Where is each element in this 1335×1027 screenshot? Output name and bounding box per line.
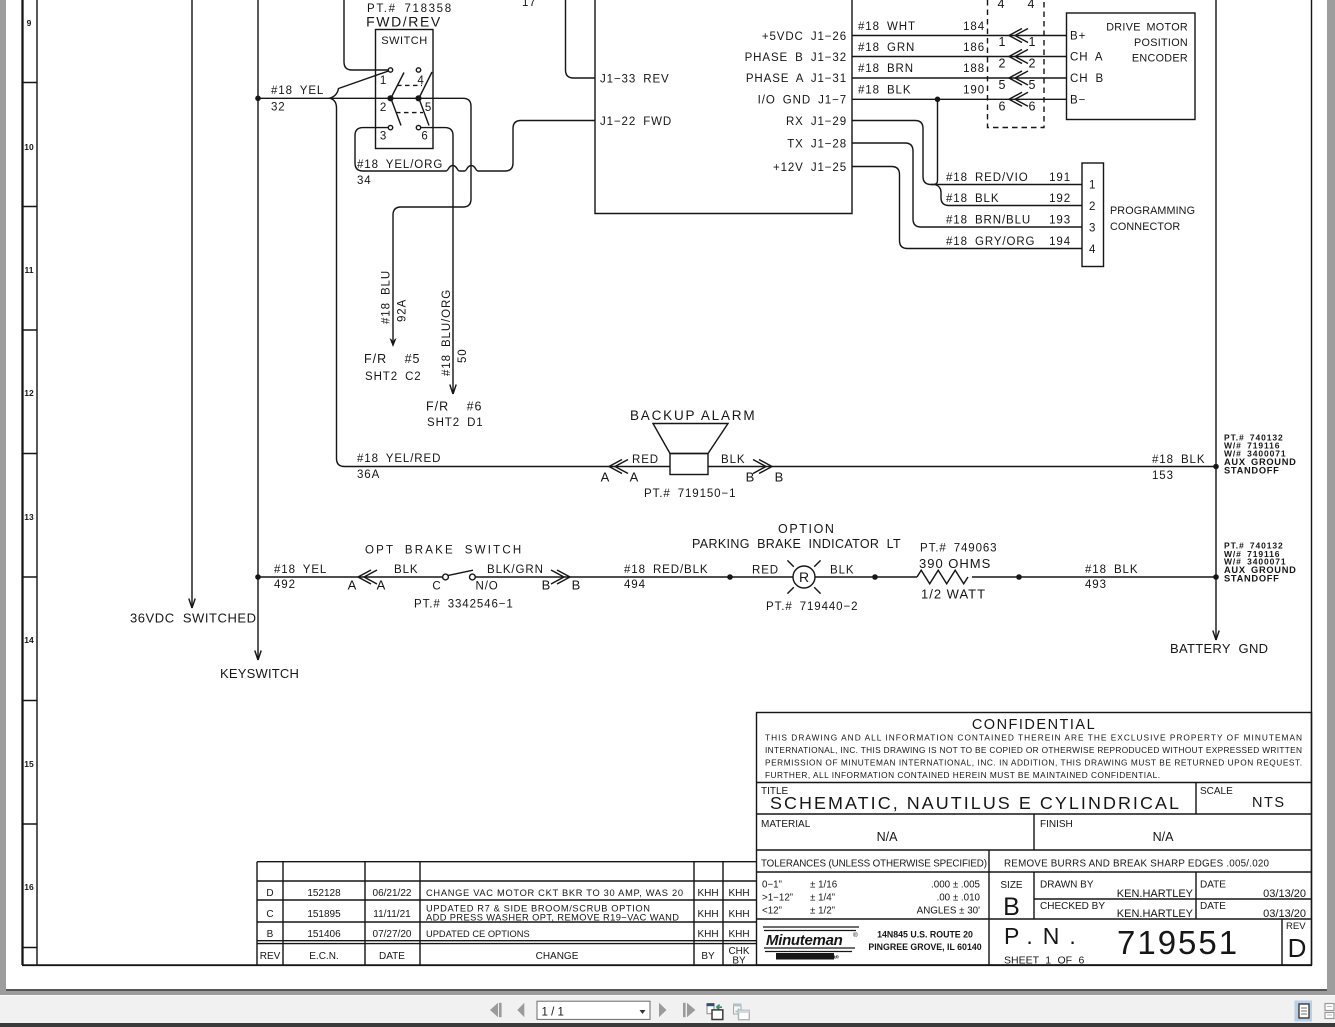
svg-text:#18 RED/BLK: #18 RED/BLK (624, 564, 709, 576)
svg-text:Excellence Meets Clean: Excellence Meets Clean (779, 955, 840, 961)
svg-text:14: 14 (24, 635, 34, 645)
page number box (537, 1001, 650, 1019)
svg-text:6: 6 (421, 131, 428, 143)
svg-text:PINGREE GROVE, IL 60140: PINGREE GROVE, IL 60140 (868, 942, 981, 952)
svg-text:4: 4 (1028, 0, 1035, 11)
encoder wire CH A (852, 56, 1067, 58)
svg-text:494: 494 (624, 579, 646, 591)
wire riser to J1-33 REV (566, 0, 596, 78)
svg-text:REV: REV (260, 951, 281, 962)
svg-text:D: D (266, 888, 273, 899)
svg-text:BLK: BLK (830, 565, 854, 577)
svg-text:PARKING BRAKE INDICATOR LT: PARKING BRAKE INDICATOR LT (692, 537, 901, 551)
next page button (659, 1003, 667, 1017)
svg-text:SHT2 C2: SHT2 C2 (365, 371, 422, 383)
controller box U1 (595, 0, 852, 214)
svg-text:TX J1−28: TX J1−28 (787, 139, 847, 151)
svg-text:07/27/20: 07/27/20 (373, 929, 412, 940)
drive motor position encoder box (1067, 13, 1196, 120)
svg-text:#18 WHT: #18 WHT (858, 21, 916, 33)
svg-text:#18 BLU/ORG: #18 BLU/ORG (441, 289, 453, 376)
junction node: I/O GND tap (935, 97, 941, 103)
connector J2 dashed encoder connector (988, 0, 1045, 128)
svg-text:A: A (601, 470, 610, 485)
svg-text:N/A: N/A (877, 830, 899, 844)
svg-text:ANGLES ± 30': ANGLES ± 30' (917, 906, 980, 917)
svg-text:POSITION: POSITION (1134, 37, 1188, 49)
svg-text:BLK: BLK (394, 564, 418, 576)
svg-text:± 1/16: ± 1/16 (810, 880, 838, 891)
svg-text:2: 2 (999, 57, 1006, 71)
svg-text:DATE: DATE (1200, 880, 1226, 891)
connector B-B chevrons (alarm right) (753, 460, 772, 474)
switch S1 FWD/REV body (376, 30, 434, 149)
svg-text:2: 2 (1089, 201, 1096, 213)
svg-text:152128: 152128 (307, 888, 341, 899)
svg-text:<12”: <12” (762, 906, 782, 917)
wire 36VDC SWITCHED bus (189, 0, 195, 608)
svg-text:RED: RED (632, 454, 659, 466)
svg-text:1: 1 (1089, 180, 1096, 192)
svg-text:NTS: NTS (1252, 795, 1286, 811)
svg-text:390 OHMS: 390 OHMS (919, 556, 991, 571)
svg-text:16: 16 (24, 882, 34, 892)
svg-text:4: 4 (1089, 244, 1096, 256)
svg-text:CH A: CH A (1070, 52, 1103, 64)
svg-text:493: 493 (1085, 579, 1107, 591)
svg-text:REV: REV (1286, 921, 1306, 932)
svg-text:RX J1−29: RX J1−29 (786, 116, 847, 128)
switch S1 mechanical link dashed (396, 85, 423, 112)
svg-text:17: 17 (522, 0, 537, 9)
junction node: blk splice after lamp (872, 574, 878, 580)
svg-text:OPT BRAKE SWITCH: OPT BRAKE SWITCH (365, 545, 523, 557)
svg-text:P.N.: P.N. (1004, 923, 1086, 949)
encoder chevron row 2 (1009, 50, 1028, 64)
revision table frame (257, 862, 757, 965)
svg-text:BY: BY (732, 956, 746, 967)
svg-text:ENCODER: ENCODER (1132, 53, 1188, 65)
svg-text:BACKUP ALARM: BACKUP ALARM (630, 408, 756, 423)
junction node: alarm row at ground bus (1213, 464, 1219, 470)
svg-text:153: 153 (1152, 470, 1174, 482)
wire branch down to #18 YEL/RED (330, 98, 345, 466)
encoder wire B- (852, 98, 1067, 100)
svg-text:KHH: KHH (728, 909, 749, 920)
encoder connector pin numbers (998, 0, 1036, 114)
svg-text:36VDC SWITCHED: 36VDC SWITCHED (130, 611, 257, 626)
svg-text:SHEET 1 OF 6: SHEET 1 OF 6 (1004, 955, 1084, 967)
svg-text:BY: BY (701, 951, 715, 962)
svg-text:E.C.N.: E.C.N. (309, 951, 338, 962)
zone numbers (24, 18, 34, 892)
svg-text:DRIVE MOTOR: DRIVE MOTOR (1106, 22, 1188, 34)
svg-text:9: 9 (27, 18, 32, 28)
svg-text:DATE: DATE (379, 951, 405, 962)
svg-text:BATTERY GND: BATTERY GND (1170, 641, 1268, 656)
svg-text:PT.# 719150−1: PT.# 719150−1 (644, 488, 736, 500)
wire programming pin 1 (#18 RED/VIO 191) (931, 184, 1082, 186)
svg-text:BLK: BLK (721, 454, 745, 466)
svg-text:1 / 1: 1 / 1 (542, 1007, 564, 1019)
svg-text:92A: 92A (397, 299, 409, 322)
connector A-A chevrons (brake switch left) (358, 570, 377, 584)
svg-text:Minuteman: Minuteman (766, 932, 843, 949)
page layout toggle: two pages (1325, 1004, 1334, 1019)
junction node: row2 at ground bus (1213, 574, 1219, 580)
encoder chevron row 1 (1009, 29, 1028, 43)
backup alarm LS1 horn (653, 424, 728, 454)
svg-text:OPTION: OPTION (778, 522, 836, 536)
svg-text:SWITCH: SWITCH (381, 35, 427, 47)
svg-text:151895: 151895 (307, 909, 341, 920)
svg-text:SCHEMATIC, NAUTILUS E CYLINDRI: SCHEMATIC, NAUTILUS E CYLINDRICAL (770, 793, 1181, 813)
svg-text:CHANGE: CHANGE (536, 951, 579, 962)
svg-text:B: B (267, 929, 274, 940)
wire switch pins 2-5 to F/R #5 (#18 BLU 92A) (390, 98, 472, 347)
svg-text:N/O: N/O (476, 581, 499, 593)
svg-text:3: 3 (1089, 223, 1096, 235)
svg-text:PERMISSION OF MINUTEMAN INTERN: PERMISSION OF MINUTEMAN INTERNATIONAL, I… (765, 758, 1302, 768)
wire +12V J1-25 to programming pin 4 (852, 167, 1082, 249)
svg-text:5: 5 (1029, 78, 1036, 92)
wire #18 YEL/RED 36A row to backup alarm and ground bus (345, 466, 1217, 468)
junction node: red/blk-red splice (727, 574, 733, 580)
svg-text:#18 BLK: #18 BLK (1152, 454, 1205, 466)
svg-text:DATE: DATE (1200, 901, 1226, 912)
svg-text:CH B: CH B (1070, 73, 1104, 85)
svg-text:#18 YEL/ORG: #18 YEL/ORG (357, 159, 443, 171)
svg-text:03/13/20: 03/13/20 (1263, 888, 1306, 900)
svg-text:719551: 719551 (1117, 924, 1239, 961)
svg-text:PHASE A J1−31: PHASE A J1−31 (746, 73, 847, 85)
svg-text:C: C (266, 909, 273, 920)
svg-text:KHH: KHH (728, 929, 749, 940)
svg-text:SCALE: SCALE (1200, 786, 1233, 797)
svg-text:KHH: KHH (728, 888, 749, 899)
switch S1 contact 6 (416, 125, 420, 129)
svg-text:>1−12”: >1−12” (762, 893, 793, 904)
svg-text:B−: B− (1070, 95, 1086, 107)
svg-text:KEYSWITCH: KEYSWITCH (220, 666, 299, 681)
backup alarm LS1 body (670, 454, 708, 475)
svg-text:REMOVE BURRS AND BREAK SHARP E: REMOVE BURRS AND BREAK SHARP EDGES .005/… (1004, 859, 1270, 870)
revision table text (260, 888, 750, 967)
brake switch SW contact C (443, 574, 449, 580)
svg-text:12: 12 (24, 388, 34, 398)
prev page button (517, 1003, 524, 1017)
svg-text:D: D (1288, 933, 1307, 963)
svg-text:SIZE: SIZE (1000, 880, 1023, 891)
svg-text:SHT2 D1: SHT2 D1 (427, 417, 484, 429)
svg-text:B+: B+ (1070, 31, 1086, 43)
wire RX J1-29 to programming pin 1 (852, 121, 931, 185)
svg-text:#18 BLK: #18 BLK (1085, 564, 1138, 576)
switch S1 lever pole B up (420, 72, 433, 97)
switch S1 lever pole A down (392, 100, 402, 126)
wire #18 YEL/ORG: switch pin 3 to J1-22 FWD with hops (355, 121, 595, 172)
svg-text:190: 190 (963, 85, 985, 97)
icon: next view (disabled) (733, 1004, 749, 1020)
svg-text:10: 10 (24, 142, 34, 152)
switch S1 contact 5 (416, 96, 421, 101)
first page button (490, 1003, 502, 1017)
title block frame (757, 713, 1312, 966)
svg-text:0−1”: 0−1” (762, 880, 782, 891)
wire switch pin 6 to F/R #6 (#18 BLU/ORG 50) (420, 128, 456, 394)
svg-text:CONNECTOR: CONNECTOR (1110, 221, 1180, 233)
switch S1 lever pole B down (420, 100, 430, 126)
svg-text:50: 50 (457, 348, 469, 363)
svg-text:B: B (1003, 893, 1020, 921)
svg-text:B: B (542, 578, 551, 593)
wire riser to switch pin 1 (344, 0, 388, 70)
lamp DS1 parking brake indicator circle (793, 566, 815, 588)
svg-text:#18 GRY/ORG: #18 GRY/ORG (946, 236, 1035, 248)
svg-text:CHECKED BY: CHECKED BY (1040, 901, 1105, 912)
switch S1 contact 4 (416, 68, 420, 72)
svg-text:J1−22 FWD: J1−22 FWD (600, 116, 672, 128)
encoder chevron row 4 (1009, 92, 1028, 106)
svg-text:RED: RED (752, 565, 779, 577)
icon: previous view (707, 1003, 723, 1019)
svg-text:STANDOFF: STANDOFF (1224, 574, 1280, 584)
svg-text:06/21/22: 06/21/22 (373, 888, 412, 899)
connector A-A chevrons (alarm left) (609, 460, 628, 474)
junction node: YEL bus tap (255, 96, 261, 102)
svg-text:DRAWN BY: DRAWN BY (1040, 880, 1094, 891)
svg-text:03/13/20: 03/13/20 (1263, 908, 1306, 920)
last page button (683, 1003, 695, 1017)
svg-text:J1−33 REV: J1−33 REV (600, 74, 670, 86)
svg-text:151406: 151406 (307, 929, 341, 940)
svg-text:UPDATED CE OPTIONS: UPDATED CE OPTIONS (426, 929, 530, 939)
svg-text:1: 1 (380, 75, 387, 87)
svg-text:6: 6 (1029, 100, 1036, 114)
svg-text:+5VDC J1−26: +5VDC J1−26 (762, 31, 847, 43)
svg-text:INTERNATIONAL, INC. THIS DRAWI: INTERNATIONAL, INC. THIS DRAWING IS NOT … (765, 745, 1302, 755)
svg-text:#18 YEL: #18 YEL (274, 564, 327, 576)
svg-text:#18 BLU: #18 BLU (381, 270, 393, 324)
svg-text:#18 BRN: #18 BRN (858, 63, 914, 75)
svg-text:1/2 WATT: 1/2 WATT (921, 587, 986, 602)
wire I/O GND drop to programming pin 1 (931, 99, 938, 184)
page layout toggle: single page (active) (1295, 1001, 1313, 1022)
wire #18 YEL 32 to switch pin 2 (258, 97, 388, 99)
encoder wire B+ (852, 35, 1067, 37)
svg-text:PROGRAMMING: PROGRAMMING (1110, 205, 1195, 217)
wire TX J1-28 to programming pin 3 (852, 143, 1082, 227)
svg-text:11: 11 (25, 265, 34, 275)
svg-text:.00 ± .010: .00 ± .010 (936, 893, 980, 904)
svg-text:2: 2 (380, 102, 387, 114)
encoder chevron row 3 (1009, 71, 1028, 85)
wire branch to switch pin 1 (329, 71, 389, 98)
svg-text:MATERIAL: MATERIAL (761, 819, 811, 830)
svg-text:36A: 36A (357, 469, 380, 481)
svg-text:2: 2 (1029, 57, 1036, 71)
svg-text:193: 193 (1049, 215, 1071, 227)
svg-text:1: 1 (999, 35, 1006, 49)
svg-text:± 1/4”: ± 1/4” (810, 893, 835, 904)
brake switch SW lever (448, 570, 473, 575)
svg-text:192: 192 (1049, 193, 1071, 205)
zone boundary ticks (22, 83, 37, 948)
svg-text:KHH: KHH (697, 929, 718, 940)
wire right ground bus to BATTERY GND (1213, 0, 1219, 640)
switch S1 contact 1 (388, 68, 392, 72)
label AUX GROUND STANDOFF (lower) (1224, 541, 1297, 584)
svg-text:I/O GND J1−7: I/O GND J1−7 (758, 95, 847, 107)
svg-text:#18 GRN: #18 GRN (858, 42, 915, 54)
svg-text:KEN.HARTLEY: KEN.HARTLEY (1117, 908, 1194, 920)
svg-text:#18 RED/VIO: #18 RED/VIO (946, 172, 1029, 184)
SCHEMATIC (595, 0, 1195, 267)
svg-text:R: R (799, 569, 809, 585)
svg-text:PHASE B J1−32: PHASE B J1−32 (745, 52, 847, 64)
svg-text:A: A (348, 578, 357, 593)
svg-text:THIS DRAWING AND ALL INFORMATI: THIS DRAWING AND ALL INFORMATION CONTAIN… (765, 733, 1302, 743)
svg-text:184: 184 (963, 21, 985, 33)
svg-text:6: 6 (999, 100, 1006, 114)
svg-text:A: A (630, 470, 639, 485)
svg-text:ADD PRESS WASHER OPT, REMOVE R: ADD PRESS WASHER OPT, REMOVE R19−VAC WAN… (426, 913, 679, 923)
svg-text:FURTHER, ALL INFORMATION CONTA: FURTHER, ALL INFORMATION CONTAINED HEREI… (765, 770, 1160, 780)
switch S1 lever pole A up (392, 73, 405, 98)
svg-text:PT.# 719440−2: PT.# 719440−2 (766, 601, 858, 613)
svg-text:#18 BRN/BLU: #18 BRN/BLU (946, 215, 1031, 227)
svg-text:B: B (775, 470, 784, 485)
resistor R1 390 ohms (917, 570, 968, 584)
svg-text:PT.# 749063: PT.# 749063 (920, 543, 997, 555)
svg-text:194: 194 (1049, 236, 1071, 248)
svg-text:191: 191 (1049, 172, 1071, 184)
brake switch SW contact N/O (470, 574, 476, 580)
svg-text:186: 186 (963, 42, 985, 54)
svg-text:#18 YEL/RED: #18 YEL/RED (357, 453, 441, 465)
wire opt brake / parking brake row (258, 576, 1216, 578)
svg-text:34: 34 (357, 175, 372, 187)
svg-text:188: 188 (963, 63, 985, 75)
svg-text:#18 YEL: #18 YEL (271, 85, 324, 97)
lamp DS1 rays (787, 560, 820, 593)
svg-text:± 1/2”: ± 1/2” (810, 906, 835, 917)
svg-text:STANDOFF: STANDOFF (1224, 466, 1280, 476)
programming connector box (1082, 163, 1104, 267)
svg-text:CHANGE VAC MOTOR CKT BKR TO 30: CHANGE VAC MOTOR CKT BKR TO 30 AMP, WAS … (426, 888, 683, 898)
connector B-B chevrons (brake switch right) (551, 570, 570, 584)
wire S-link pin1 to pin2 (935, 185, 949, 206)
svg-text:N/A: N/A (1153, 830, 1175, 844)
svg-text:KHH: KHH (697, 888, 718, 899)
svg-text:CONFIDENTIAL: CONFIDENTIAL (972, 717, 1096, 733)
svg-text:492: 492 (274, 579, 296, 591)
svg-text:C: C (432, 581, 441, 593)
svg-text:PT.# 3342546−1: PT.# 3342546−1 (414, 599, 514, 611)
svg-text:B: B (746, 470, 755, 485)
junction node: after resistor (1016, 574, 1022, 580)
svg-text:5: 5 (999, 78, 1006, 92)
svg-text:11/11/21: 11/11/21 (373, 909, 411, 920)
svg-text:KEN.HARTLEY: KEN.HARTLEY (1117, 888, 1194, 900)
svg-text:F/R #5: F/R #5 (364, 352, 421, 366)
svg-text:®: ® (853, 931, 858, 939)
switch S1 contact 3 (388, 125, 392, 129)
svg-text:4: 4 (998, 0, 1005, 11)
svg-text:+12V J1−25: +12V J1−25 (773, 162, 847, 174)
svg-text:F/R #6: F/R #6 (426, 400, 483, 414)
svg-text:#18 BLK: #18 BLK (858, 85, 911, 97)
svg-text:B: B (572, 578, 581, 593)
svg-text:4: 4 (417, 75, 424, 87)
wire between switch pins 2 and 5 (393, 97, 416, 99)
minuteman logo (763, 927, 859, 961)
switch S1 contact 2 (388, 96, 393, 101)
svg-text:.000 ± .005: .000 ± .005 (931, 880, 981, 891)
svg-text:5: 5 (425, 102, 432, 114)
svg-text:#18 BLK: #18 BLK (946, 193, 999, 205)
svg-text:15: 15 (24, 759, 34, 769)
svg-text:A: A (377, 578, 386, 593)
wire KEYSWITCH bus (255, 0, 261, 660)
label AUX GROUND STANDOFF (upper) (1224, 433, 1297, 476)
svg-text:14N845 U.S. ROUTE 20: 14N845 U.S. ROUTE 20 (877, 930, 973, 940)
title block text (761, 717, 1306, 967)
svg-text:13: 13 (24, 512, 34, 522)
svg-text:BLK/GRN: BLK/GRN (487, 564, 544, 576)
svg-text:FWD/REV: FWD/REV (366, 14, 442, 30)
junction node: keyswitch row tap (255, 574, 261, 580)
encoder wire CH B (852, 77, 1067, 79)
svg-text:KHH: KHH (697, 909, 718, 920)
svg-text:32: 32 (271, 102, 286, 114)
wire programming pin 2 (#18 BLK 192) (949, 205, 1082, 207)
svg-text:1: 1 (1029, 35, 1036, 49)
svg-text:3: 3 (380, 131, 387, 143)
svg-text:FINISH: FINISH (1040, 819, 1073, 830)
svg-text:TOLERANCES (UNLESS OTHERWISE S: TOLERANCES (UNLESS OTHERWISE SPECIFIED) (761, 859, 987, 870)
